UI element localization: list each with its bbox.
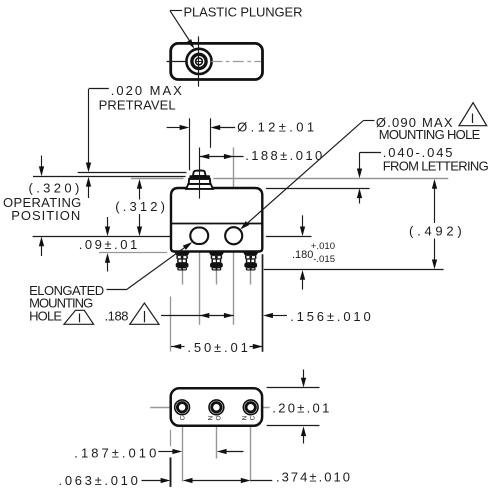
svg-text:PRETRAVEL: PRETRAVEL bbox=[99, 98, 176, 113]
svg-text:POSITION: POSITION bbox=[11, 208, 80, 223]
top view plunger inner circle bbox=[196, 58, 203, 65]
plunger base tier2 bbox=[186, 184, 213, 189]
arrow up: .180 to terminal end line bbox=[300, 270, 305, 280]
plastic plunger leader arrowhead bbox=[187, 39, 197, 50]
bottom view horizontal centerline bbox=[150, 407, 269, 409]
.156 dimension tail bbox=[272, 315, 288, 317]
arrow down: pretravel to free line bbox=[86, 163, 91, 173]
arrow down: (.312) to centerline bbox=[137, 227, 142, 237]
bottom view left terminal circles bbox=[175, 400, 190, 415]
arrow right: .188 at hole centerline bbox=[224, 154, 234, 159]
(.492) dimension upper segment bbox=[434, 188, 436, 224]
svg-text:FROM LETTERING: FROM LETTERING bbox=[383, 159, 489, 174]
.374 dimension line bbox=[191, 480, 243, 482]
svg-text:HOLE: HOLE bbox=[29, 308, 62, 323]
middle terminal centerline bbox=[216, 253, 218, 285]
.20 lower arrow tail bbox=[303, 434, 305, 444]
arrow right: .374 right bbox=[241, 478, 251, 483]
arrow left: dia .12 right bbox=[210, 125, 220, 130]
bottom view right terminal circles bbox=[243, 400, 258, 415]
right mounting hole bbox=[225, 227, 242, 244]
.09 lower arrow tail bbox=[107, 261, 109, 272]
arrow right: dia .12 left bbox=[180, 125, 190, 130]
svg-text:-.015: -.015 bbox=[313, 254, 335, 265]
.188 holes dimension line bbox=[161, 315, 234, 317]
.20 upper extension line bbox=[267, 387, 320, 389]
svg-text:.188±.010: .188±.010 bbox=[245, 148, 322, 163]
front view body bbox=[171, 188, 262, 252]
arrow left: .187 right bbox=[217, 449, 227, 454]
(.312) lower arrow tail bbox=[139, 214, 141, 227]
top view plunger outer circle bbox=[186, 49, 211, 74]
pretravel leader horizontal bbox=[89, 88, 109, 90]
arrow left: .188 at plunger centerline bbox=[200, 154, 210, 159]
dia .12 dimension line right tail bbox=[218, 127, 235, 129]
arrow right: .063 bbox=[161, 478, 171, 483]
elongated mounting hole (left) bbox=[190, 228, 208, 245]
svg-text:.063±.010: .063±.010 bbox=[59, 473, 138, 488]
arrow down: .040 to lettering line bbox=[357, 169, 362, 179]
plunger centerline bbox=[199, 170, 201, 199]
right mounting hole centerline (lower) bbox=[233, 244, 235, 325]
(.320) lower arrow tail bbox=[41, 244, 43, 256]
top view dash-dot centerline bbox=[211, 61, 260, 63]
(.320) upper arrow tail bbox=[41, 156, 43, 168]
right mounting hole centerline (upper) bbox=[233, 148, 235, 228]
pretravel leader vertical bbox=[88, 89, 90, 164]
bottom view right terminal centerline bbox=[250, 392, 252, 482]
.374 dimension extension to text bbox=[250, 480, 272, 482]
body right edge extension (black) bbox=[262, 254, 264, 352]
body left edge extension for .50 bbox=[170, 297, 172, 352]
bottom view body bbox=[171, 388, 262, 426]
arrow right-out: .50 right end bbox=[253, 344, 263, 349]
plastic plunger leader diagonal bbox=[170, 11, 192, 45]
svg-text:.156±.010: .156±.010 bbox=[290, 309, 371, 324]
svg-text:MOUNTING HOLE: MOUNTING HOLE bbox=[379, 127, 481, 142]
svg-text:.188: .188 bbox=[105, 308, 129, 323]
hole centerline extension right bbox=[266, 236, 312, 238]
bottom view body-left extension (black thick) bbox=[170, 457, 172, 487]
.50 dimension line left segment bbox=[171, 346, 185, 348]
arrow up: pretravel below op line bbox=[86, 177, 91, 187]
left terminal centerline bbox=[182, 253, 184, 285]
triangle flag 1 (after HOLE) bbox=[64, 310, 94, 324]
(.312) upper arrow tail bbox=[139, 188, 141, 200]
bottom view middle terminal circles bbox=[209, 400, 224, 415]
arrow down: .09 to centerline bbox=[105, 227, 110, 237]
pretravel lower arrow tail bbox=[88, 185, 90, 199]
leader: elongated mounting hole bbox=[107, 289, 127, 291]
top view crosshair horizontal left bbox=[167, 61, 187, 63]
lettering reference line (left segment) bbox=[131, 178, 184, 180]
right terminal bbox=[243, 252, 258, 270]
middle terminal bbox=[209, 252, 224, 270]
lettering reference line (right segment) bbox=[214, 178, 449, 180]
arrow up: .09 to body bottom ext bbox=[105, 253, 110, 263]
(.492) dimension lower segment bbox=[434, 239, 436, 262]
top view crosshair horizontal inside bbox=[196, 61, 203, 63]
arrow up: (.320) to centerline bbox=[39, 237, 44, 247]
.20 lower extension line bbox=[267, 425, 320, 427]
arrow down: (.492) to terminal end line bbox=[432, 260, 437, 270]
svg-text:PLASTIC PLUNGER: PLASTIC PLUNGER bbox=[184, 4, 303, 19]
plunger centerline upper extension bbox=[199, 148, 201, 171]
.063 dimension line tail bbox=[142, 480, 163, 482]
top view vertical centerline bbox=[198, 36, 200, 86]
.187 right arrow tail bbox=[225, 451, 244, 453]
.187 dimension line tail bbox=[158, 451, 174, 453]
.20 upper arrow tail bbox=[303, 370, 305, 380]
arrow left: .374 left bbox=[183, 478, 193, 483]
.188 dimension line bbox=[200, 156, 244, 158]
.180 upper arrow tail bbox=[302, 215, 304, 227]
arrow down: .180 to centerline ext bbox=[300, 227, 305, 237]
arrow left: .156 at body right ext bbox=[263, 313, 273, 318]
bottom view body-left extension (thin gray) bbox=[170, 430, 172, 447]
arrow down: (.320) to op line bbox=[39, 166, 44, 176]
.180 lower arrow tail bbox=[302, 279, 304, 290]
arrow left: .188 holes left end bbox=[200, 313, 210, 318]
front view case split line bbox=[171, 223, 262, 225]
arrow right: .187 left bbox=[172, 449, 182, 454]
svg-text:.040-.045: .040-.045 bbox=[383, 145, 453, 160]
arrow up: .040 to body top ext bbox=[357, 188, 362, 198]
top view plunger middle circle bbox=[192, 54, 206, 68]
operating position line bbox=[33, 176, 186, 178]
leader: dia .090 mounting hole bbox=[363, 120, 374, 122]
svg-text:N: N bbox=[242, 415, 249, 420]
.09 upper arrow tail bbox=[107, 217, 109, 227]
svg-text:+.010: +.010 bbox=[311, 241, 335, 252]
bottom view left terminal centerline bbox=[182, 392, 184, 482]
triangle flag 3 (after dia .090 MAX) bbox=[459, 103, 487, 126]
arrow up: (.312) to lettering line bbox=[137, 179, 142, 189]
arrow up: (.492) to lettering line bbox=[432, 179, 437, 189]
dia .12 right extension line bbox=[210, 118, 212, 148]
free position line bbox=[78, 172, 187, 174]
plunger collar bbox=[190, 176, 210, 179]
arrow up: .20 bottom bbox=[301, 426, 306, 436]
body top extension line right bbox=[266, 188, 370, 190]
dia .12 left extension line bbox=[189, 118, 191, 170]
triangle flag 2 (after .188) bbox=[130, 303, 159, 324]
body bottom extension line left bbox=[99, 252, 167, 254]
left mounting hole centerline (lower) bbox=[199, 244, 201, 325]
svg-text:.187±.010: .187±.010 bbox=[74, 446, 156, 461]
svg-text:C: C bbox=[180, 415, 187, 420]
top view body bbox=[171, 43, 263, 79]
right terminal centerline bbox=[250, 253, 252, 285]
arrow down: .20 top bbox=[301, 378, 306, 388]
.040-.045 lower arrow tail bbox=[359, 196, 361, 203]
svg-text:N: N bbox=[208, 415, 215, 420]
bottom view middle terminal centerline bbox=[216, 392, 218, 459]
svg-text:O: O bbox=[216, 415, 223, 420]
arrow right: .188 holes right end bbox=[224, 313, 234, 318]
plunger base tier1 bbox=[189, 179, 211, 184]
.040-.045 leader horizontal bbox=[360, 152, 382, 154]
svg-text:.374±.010: .374±.010 bbox=[276, 470, 350, 485]
left terminal bbox=[175, 252, 190, 270]
.50 dimension line right segment bbox=[250, 346, 263, 348]
dia .12 dimension line left tail bbox=[167, 127, 181, 129]
plunger dome bbox=[193, 170, 206, 176]
.040-.045 leader vertical bbox=[359, 153, 361, 170]
svg-text:C: C bbox=[250, 415, 257, 420]
arrow left-out: .50 left end bbox=[171, 344, 181, 349]
mounting hole horizontal centerline (black, left of body) bbox=[33, 236, 171, 238]
terminal end line bbox=[264, 269, 444, 271]
plastic plunger leader horizontal bbox=[170, 10, 182, 12]
